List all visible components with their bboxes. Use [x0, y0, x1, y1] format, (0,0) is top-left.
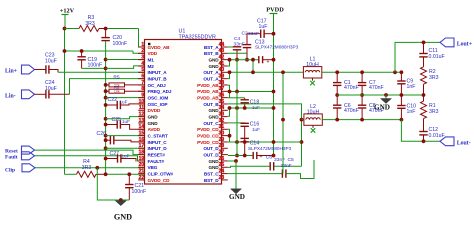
- svg-text:470nF: 470nF: [344, 85, 359, 91]
- capacitor C25: [104, 123, 108, 127]
- resistor R1: [423, 95, 425, 101]
- node R2/R1 GND: [422, 93, 426, 97]
- wire Fault to FAULT#: [35, 156, 145, 161]
- capacitor C23: [35, 69, 46, 71]
- pin 25 GND: [222, 166, 228, 168]
- svg-text:1uF: 1uF: [120, 99, 128, 104]
- wire OUT_B rail to L2: [228, 104, 302, 166]
- pin 12 GND: [138, 116, 144, 118]
- wire INPUT_D rail: [104, 146, 108, 150]
- svg-text:CLIP_OTW#: CLIP_OTW#: [148, 171, 174, 176]
- svg-text:+12V: +12V: [60, 8, 75, 15]
- node C4/GND rail: [235, 58, 239, 62]
- pin 42 GND: [222, 59, 228, 61]
- wire OUT_A rail: [228, 71, 304, 73]
- capacitor C16: [241, 122, 249, 124]
- wire BST return vertical: [252, 60, 254, 73]
- svg-text:31: 31: [219, 124, 225, 130]
- pin 17 INPUT_D: [138, 147, 144, 149]
- pin 41 GND: [222, 65, 228, 67]
- resistor R6: [104, 89, 108, 93]
- svg-text:+: +: [267, 59, 270, 65]
- svg-text:1uF: 1uF: [122, 119, 130, 124]
- svg-text:C27: C27: [110, 151, 120, 157]
- svg-text:42: 42: [219, 55, 225, 61]
- pin 10 OSC_IOP: [138, 103, 144, 105]
- svg-text:41: 41: [219, 61, 225, 67]
- svg-text:BST_A: BST_A: [204, 45, 219, 50]
- pin 44 BST_A: [222, 46, 228, 48]
- wire R3 to pin 1: [106, 28, 139, 30]
- svg-text:BST_D: BST_D: [204, 178, 219, 183]
- wire GND rail mid: [228, 107, 274, 109]
- svg-text:M2: M2: [148, 64, 155, 69]
- connector Lout-: [440, 137, 454, 146]
- svg-text:PVDD: PVDD: [266, 7, 284, 14]
- svg-text:PVDD_AB: PVDD_AB: [197, 89, 219, 94]
- svg-text:27: 27: [219, 150, 225, 156]
- svg-text:25: 25: [219, 162, 225, 168]
- pin 31 PVDD_CD: [222, 128, 228, 130]
- svg-text:10uH: 10uH: [306, 62, 319, 68]
- pin 43 BST_B: [222, 52, 228, 54]
- svg-text:OUT_D: OUT_D: [203, 146, 219, 151]
- pin 4 M2: [138, 65, 144, 67]
- no-connect L1 center tap: [312, 78, 314, 81]
- pin 16 INPUT_C: [138, 141, 144, 143]
- svg-text:6: 6: [141, 74, 144, 80]
- capacitor C5 bootstrap: [228, 173, 282, 175]
- pin 28 OUT_D: [222, 147, 228, 149]
- wire PVDD_AB column lower: [236, 92, 238, 156]
- pin 36 PVDD_AB: [222, 97, 228, 99]
- capacitor C20: [105, 29, 107, 38]
- node +12V/VDD rail: [63, 49, 67, 53]
- svg-text:FAULT#: FAULT#: [148, 159, 165, 164]
- wire Lin+ to INPUT_A: [49, 70, 58, 73]
- svg-text:GND: GND: [229, 193, 245, 201]
- svg-text:GND: GND: [148, 121, 159, 126]
- svg-text:INPUT_A: INPUT_A: [148, 70, 168, 75]
- capacitor C15: [241, 137, 249, 139]
- svg-text:39: 39: [219, 74, 225, 80]
- pin 5 INPUT_A: [138, 71, 144, 73]
- capacitor C18: [230, 97, 245, 99]
- svg-text:17: 17: [139, 143, 145, 149]
- pin 11 DVDD: [138, 109, 144, 111]
- pin 13 GND: [138, 122, 144, 124]
- svg-text:M1: M1: [148, 58, 155, 63]
- svg-text:TPA3255DDVR: TPA3255DDVR: [179, 34, 216, 40]
- op-amp U1 TPA3255DDVR body: [145, 40, 222, 185]
- svg-text:PVDD_AB: PVDD_AB: [197, 95, 219, 100]
- svg-text:INPUT_B: INPUT_B: [148, 77, 168, 82]
- wire +12V vertical bus: [64, 29, 66, 175]
- capacitor C6 bootstrap: [228, 166, 270, 167]
- capacitor C12: [423, 119, 425, 132]
- capacitor C10: [400, 95, 402, 105]
- svg-text:33nF: 33nF: [281, 163, 292, 169]
- svg-text:Lout-: Lout-: [457, 141, 471, 147]
- svg-text:OSC_IOM: OSC_IOM: [148, 95, 169, 100]
- capacitor C27: [104, 157, 108, 161]
- svg-text:18: 18: [139, 150, 145, 156]
- svg-text:3R3: 3R3: [85, 21, 95, 27]
- wire M1 rail: [104, 58, 108, 62]
- wire L1 to output rail: [322, 71, 402, 73]
- wire PVDD_AB rail: [228, 85, 230, 98]
- svg-text:10uF: 10uF: [45, 86, 57, 92]
- node PVDD_CD/PVDD bus: [272, 140, 276, 144]
- svg-text:14: 14: [139, 124, 145, 130]
- pin 41 jog: [228, 60, 230, 66]
- svg-text:OSC_IOP: OSC_IOP: [148, 102, 168, 107]
- pin 29 PVDD_CD: [222, 141, 228, 143]
- wire VDD rail: [65, 50, 134, 52]
- pin 2 VDD: [138, 52, 144, 54]
- svg-text:Lin+: Lin+: [5, 68, 17, 74]
- svg-text:3: 3: [141, 55, 144, 61]
- pin 30 PVDD_CD: [222, 135, 228, 137]
- pin 40 OUT_A: [222, 71, 228, 73]
- svg-text:8: 8: [141, 86, 144, 92]
- pin 39 jog: [228, 72, 230, 78]
- svg-text:C22: C22: [108, 97, 118, 103]
- svg-text:5: 5: [141, 67, 144, 73]
- svg-text:33nF: 33nF: [248, 31, 259, 37]
- wire Reset to RESET#: [35, 150, 145, 155]
- pin 18 RESET#: [138, 154, 144, 156]
- svg-text:23: 23: [219, 175, 225, 181]
- svg-text:21: 21: [139, 169, 145, 175]
- svg-text:1nF: 1nF: [407, 109, 416, 115]
- svg-text:34: 34: [219, 105, 225, 111]
- svg-text:GVDD_AB: GVDD_AB: [148, 45, 171, 50]
- pin 33 GND: [222, 116, 228, 118]
- wire GND stub below chip: [228, 160, 236, 162]
- pin 35 OUT_B: [222, 103, 228, 105]
- pin 1 GVDD_AB: [138, 46, 144, 48]
- wire PVDD_CD rail: [228, 129, 230, 142]
- svg-text:10k: 10k: [114, 90, 120, 94]
- pin 15 C_START: [138, 135, 144, 137]
- connector Lout+: [440, 38, 454, 47]
- capacitor C6b: [336, 95, 338, 105]
- svg-text:Fault: Fault: [5, 154, 18, 160]
- pin 26 GND: [222, 160, 228, 162]
- capacitor C24: [35, 93, 46, 95]
- svg-text:C25: C25: [112, 117, 122, 123]
- pin 14 AVDD: [138, 128, 144, 130]
- svg-text:10uF: 10uF: [45, 58, 57, 64]
- pin 24 BST_C: [222, 173, 228, 175]
- svg-text:VBG: VBG: [148, 165, 158, 170]
- capacitor C22: [104, 103, 108, 107]
- svg-text:OUT_B: OUT_B: [203, 102, 219, 107]
- resistor R4: [65, 173, 77, 175]
- svg-text:C6: C6: [266, 154, 273, 160]
- svg-text:3R3: 3R3: [429, 109, 439, 115]
- pin 23 BST_D: [222, 179, 228, 181]
- svg-text:PVDD_CD: PVDD_CD: [197, 133, 219, 138]
- pin 6 INPUT_B: [138, 78, 144, 80]
- svg-text:1uF: 1uF: [252, 127, 260, 132]
- svg-text:1uF: 1uF: [252, 105, 260, 110]
- svg-text:C4: C4: [234, 36, 241, 42]
- svg-text:15: 15: [139, 131, 145, 137]
- svg-text:C26: C26: [97, 131, 107, 137]
- svg-text:RESET#: RESET#: [148, 152, 166, 157]
- svg-text:0.01uF: 0.01uF: [429, 54, 445, 60]
- inductor L1: [303, 67, 321, 78]
- pin 34 GND: [222, 109, 228, 111]
- svg-text:1uF: 1uF: [122, 153, 130, 158]
- resistor R2: [421, 67, 427, 84]
- svg-text:BST_B: BST_B: [204, 51, 219, 56]
- svg-text:470nF: 470nF: [369, 85, 384, 91]
- ground below chip: [231, 189, 242, 194]
- pin 38 PVDD_AB: [222, 84, 228, 86]
- svg-text:PVDD_CD: PVDD_CD: [197, 140, 219, 145]
- svg-text:OUT_C: OUT_C: [203, 121, 219, 126]
- wire R4 to CLIP_OTW#: [106, 173, 145, 175]
- svg-text:BST_C: BST_C: [204, 171, 219, 176]
- pin 33 jog: [228, 108, 230, 116]
- svg-text:FREQ_ADJ: FREQ_ADJ: [148, 89, 172, 94]
- svg-text:OC_ADJ: OC_ADJ: [148, 83, 167, 88]
- wire GND bus from C20: [105, 41, 107, 174]
- svg-text:PVDD_AB: PVDD_AB: [197, 83, 219, 88]
- svg-text:VDD: VDD: [148, 51, 158, 56]
- node +12V/R3: [63, 27, 67, 31]
- pin 8 FREQ_ADJ: [138, 90, 144, 92]
- svg-text:11: 11: [139, 105, 145, 111]
- svg-text:10: 10: [139, 99, 145, 105]
- svg-text:GND: GND: [114, 213, 132, 222]
- svg-text:35: 35: [219, 99, 225, 105]
- node PVDD_AB/PVDD bus: [272, 90, 276, 94]
- svg-text:24: 24: [219, 169, 225, 175]
- svg-text:OUT_D: OUT_D: [203, 152, 219, 157]
- svg-text:7: 7: [141, 80, 144, 86]
- node C14/PVDD bus end: [272, 154, 276, 158]
- svg-text:29: 29: [219, 137, 225, 143]
- svg-text:30: 30: [219, 131, 225, 137]
- capacitor C8: [361, 95, 363, 105]
- wire left GND rail: [95, 166, 99, 170]
- node OUT_B/PVDD_CD crossing: [300, 140, 304, 144]
- svg-text:22: 22: [139, 175, 145, 181]
- node C13/PVDD: [272, 58, 276, 62]
- svg-text:AVDD: AVDD: [148, 127, 161, 132]
- node C2/GND rail: [245, 58, 249, 62]
- svg-text:C_START: C_START: [148, 133, 169, 138]
- svg-text:37: 37: [219, 86, 225, 92]
- svg-text:1nF: 1nF: [407, 84, 416, 90]
- pin 20 VBG: [138, 166, 144, 168]
- ground mid: [384, 93, 388, 97]
- wire OUT_A drop to C5 column: [282, 72, 284, 173]
- wire C_START rail: [104, 134, 108, 138]
- svg-text:12: 12: [139, 112, 145, 118]
- svg-text:SLPX472M080H3P3: SLPX472M080H3P3: [248, 146, 292, 151]
- svg-text:20: 20: [139, 162, 145, 168]
- svg-text:Clip: Clip: [5, 168, 15, 174]
- wire riser to Lout+: [393, 70, 397, 74]
- capacitor C4: [228, 46, 237, 48]
- node C17/PVDD: [272, 32, 276, 36]
- capacitor C11: [422, 41, 426, 45]
- ground left: [115, 201, 126, 206]
- svg-text:100nF: 100nF: [132, 189, 147, 195]
- wire GND mid rail: [337, 94, 423, 96]
- svg-text:32: 32: [219, 118, 225, 124]
- svg-text:0.01uF: 0.01uF: [429, 133, 445, 139]
- pin 3 M1: [138, 59, 144, 61]
- svg-text:13: 13: [139, 118, 145, 124]
- pin 19 FAULT#: [138, 160, 144, 162]
- pin 32 OUT_C: [222, 122, 228, 124]
- wire L2 to output rail: [322, 119, 401, 121]
- wire OSC_IOM rail: [104, 96, 108, 100]
- svg-text:19: 19: [139, 156, 145, 162]
- svg-text:OUT_A: OUT_A: [203, 70, 219, 75]
- capacitor C7: [360, 70, 364, 74]
- svg-text:16: 16: [139, 137, 145, 143]
- svg-text:10uH: 10uH: [307, 110, 320, 116]
- svg-text:1: 1: [141, 42, 144, 48]
- pin 21 CLIP_OTW#: [138, 173, 144, 175]
- node GND rail/PVDD bus: [272, 106, 276, 110]
- svg-text:38: 38: [219, 80, 225, 86]
- svg-text:INPUT_C: INPUT_C: [148, 140, 168, 145]
- svg-text:C5: C5: [288, 157, 295, 163]
- svg-text:GND: GND: [374, 104, 390, 112]
- wire OUT_C rail: [228, 122, 245, 124]
- svg-text:36: 36: [219, 93, 225, 99]
- wire Lin- to INPUT_B: [49, 93, 70, 95]
- svg-text:INPUT_D: INPUT_D: [148, 146, 168, 151]
- pin 22 GVDD_CD: [138, 179, 144, 181]
- svg-text:1uF: 1uF: [259, 24, 268, 30]
- svg-text:OUT_A: OUT_A: [203, 77, 219, 82]
- node R3/C20: [104, 27, 108, 31]
- wire M2/C19 rail: [82, 67, 106, 69]
- resistor R5: [104, 83, 108, 87]
- node OUT_B/L2: [300, 118, 304, 122]
- svg-text:3R3: 3R3: [429, 75, 439, 81]
- svg-text:9: 9: [141, 93, 144, 99]
- svg-text:4: 4: [141, 61, 144, 67]
- svg-text:44: 44: [219, 42, 225, 48]
- wire GND pin12 rail: [104, 117, 108, 121]
- pin 9 OSC_IOM: [138, 97, 144, 99]
- pin 7 OC_ADJ: [138, 84, 144, 86]
- svg-text:DVDD: DVDD: [148, 108, 161, 113]
- svg-text:2: 2: [141, 48, 144, 54]
- svg-text:GVDD_CD: GVDD_CD: [148, 178, 171, 183]
- svg-text:Lout+: Lout+: [457, 42, 472, 48]
- svg-text:40: 40: [219, 67, 225, 73]
- svg-text:3R3: 3R3: [82, 165, 92, 171]
- resistor R3: [65, 28, 80, 30]
- svg-text:Lin-: Lin-: [5, 93, 16, 99]
- capacitor C9: [400, 70, 404, 74]
- svg-text:33: 33: [219, 112, 225, 118]
- capacitor C1: [335, 70, 339, 74]
- capacitor C21: [127, 172, 131, 176]
- pin 27 OUT_D: [222, 154, 228, 156]
- inductor L2: [304, 114, 322, 125]
- pin 39 OUT_A: [222, 78, 228, 80]
- wire GND rail AB: [228, 59, 259, 61]
- node GND bus / R4 rail: [104, 172, 108, 176]
- wire PVDD bus: [273, 14, 275, 156]
- svg-text:PVDD_CD: PVDD_CD: [197, 127, 219, 132]
- svg-text:GND: GND: [148, 114, 159, 119]
- wire drop to Lout-: [401, 120, 440, 142]
- svg-text:26: 26: [219, 156, 225, 162]
- svg-text:100nF: 100nF: [88, 62, 103, 68]
- svg-text:470nF: 470nF: [344, 108, 359, 114]
- wire C4 column lower: [236, 60, 238, 92]
- wire Clip to VBG rail: [35, 167, 145, 169]
- node left GND: [119, 198, 123, 202]
- svg-text:SLPX472M080H3P3: SLPX472M080H3P3: [255, 45, 299, 50]
- capacitor C26: [104, 138, 108, 142]
- capacitor C19: [80, 49, 84, 53]
- svg-text:43: 43: [219, 48, 225, 54]
- no-connect L2 center tap: [312, 125, 314, 128]
- pin 37 PVDD_AB: [222, 90, 228, 92]
- svg-text:28: 28: [219, 143, 225, 149]
- svg-text:100nF: 100nF: [113, 41, 128, 47]
- svg-text:R5: R5: [113, 74, 120, 80]
